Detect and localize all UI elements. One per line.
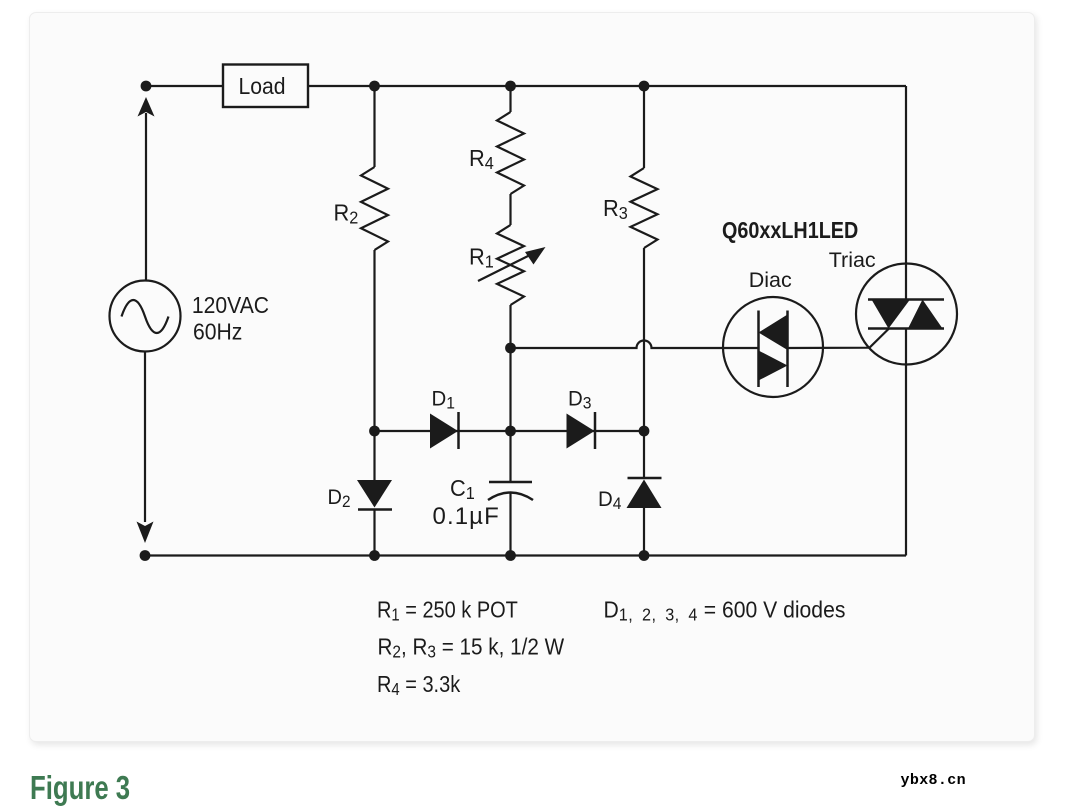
- load box "Load": [223, 65, 308, 108]
- svg-text:D2: D2: [328, 485, 351, 511]
- node I (R3/D3/D4 junction): [639, 426, 650, 437]
- svg-text:C1: C1: [450, 474, 475, 503]
- wire bottom: [145, 554, 906, 556]
- svg-text:R3: R3: [603, 194, 628, 223]
- svg-text:D4: D4: [598, 488, 622, 514]
- resistor R4: [497, 86, 524, 225]
- resistor R2: [361, 86, 388, 431]
- node C1 bottom: [505, 550, 516, 561]
- node D R3 tap: [639, 81, 650, 92]
- node J D4 bottom: [639, 550, 650, 561]
- wire right lower (triac MT1 to bottom-right corner): [905, 329, 907, 556]
- label C1 0.1uF: [433, 474, 500, 530]
- svg-text:Triac: Triac: [829, 248, 876, 272]
- svg-text:60Hz: 60Hz: [193, 318, 242, 344]
- node at D2 bottom: [369, 550, 380, 561]
- svg-text:D1, 2, 3, 4 = 600 V diodes: D1, 2, 3, 4 = 600 V diodes: [604, 596, 846, 625]
- svg-text:R2, R3 = 15 k, 1/2 W: R2, R3 = 15 k, 1/2 W: [378, 633, 565, 661]
- wire gate row right (diac to triac gate): [788, 329, 890, 349]
- diac DC1: [723, 297, 823, 397]
- arrow up (AC line top): [138, 97, 155, 281]
- diode D4: [627, 431, 662, 556]
- svg-text:D3: D3: [568, 387, 592, 413]
- wire top (Load to top-right corner): [308, 85, 906, 87]
- node E bottom-left: [140, 550, 151, 561]
- node A top-left: [141, 81, 152, 92]
- diode D3: [567, 412, 596, 449]
- wire right MT2 drop to triac: [905, 86, 907, 300]
- wire top-left (node A to Load): [146, 85, 223, 87]
- node B R2 tap: [369, 81, 380, 92]
- svg-text:R1: R1: [469, 243, 494, 272]
- svg-text:0.1µF: 0.1µF: [433, 503, 500, 530]
- wire D row (node F to node I): [375, 430, 645, 432]
- node F (R2/D1/D2 junction): [369, 426, 380, 437]
- triac Q1: [856, 264, 957, 365]
- diode D2: [357, 431, 392, 556]
- wire C1 branch (node G down to D row): [509, 348, 511, 431]
- label 120VAC 60Hz: [192, 292, 269, 345]
- svg-text:Q60xxLH1LED: Q60xxLH1LED: [722, 218, 858, 244]
- diode D1: [430, 412, 459, 449]
- node H C1 top: [505, 426, 516, 437]
- watermark ybx8.cn: [901, 772, 966, 789]
- svg-text:D1: D1: [432, 387, 456, 413]
- svg-text:120VAC: 120VAC: [192, 292, 269, 318]
- svg-text:R2: R2: [334, 199, 359, 228]
- wire source bottom + arrow down: [137, 352, 154, 544]
- caption Figure 3: [30, 769, 130, 807]
- svg-text:R4: R4: [469, 144, 494, 173]
- capacitor C1: [488, 431, 533, 556]
- svg-text:R4 = 3.3k: R4 = 3.3k: [377, 670, 460, 699]
- wire gate row left (node G to hop): [511, 341, 759, 349]
- resistor R3: [631, 86, 658, 431]
- source V1 AC circle: [110, 281, 181, 352]
- node C R4 tap: [505, 81, 516, 92]
- svg-text:Diac: Diac: [749, 268, 792, 292]
- node G wiper junction: [505, 343, 516, 354]
- potentiometer R1: [478, 225, 546, 348]
- svg-text:Load: Load: [239, 73, 286, 99]
- svg-text:R1 = 250 k POT: R1 = 250 k POT: [377, 596, 518, 625]
